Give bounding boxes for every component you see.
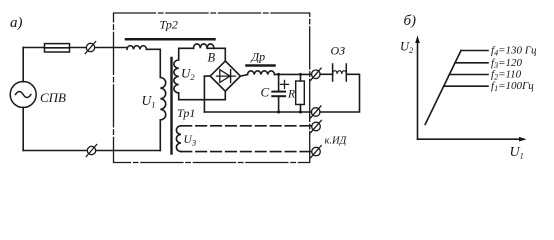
terminal X2 <box>87 146 95 154</box>
graph y axis <box>417 40 419 140</box>
wire Tr2 secondary to bridge top <box>207 48 225 61</box>
svg-text:f4=130 Гц: f4=130 Гц <box>491 45 537 58</box>
bridge rectifier B diamond <box>210 61 240 91</box>
transformer Tr2 core <box>126 38 215 41</box>
graph y axis arrowhead <box>415 36 420 44</box>
svg-text:U3: U3 <box>184 134 197 148</box>
wire bridge right vertex to choke <box>240 75 247 77</box>
svg-text:U1: U1 <box>510 145 524 161</box>
svg-text:Тр1: Тр1 <box>177 106 195 120</box>
wire bottom left horizontal <box>23 150 87 152</box>
wire U1 bottom <box>159 120 161 151</box>
capacitor C bottom lead <box>278 97 280 112</box>
terminal X3 slash <box>311 68 322 80</box>
terminal X5 slash <box>311 120 322 132</box>
wire left vertical top <box>22 48 24 82</box>
svg-text:а): а) <box>10 15 23 31</box>
graph flat line f4 <box>461 50 488 52</box>
transformer Tr1 core <box>170 58 172 154</box>
ac source sine symbol <box>16 92 31 98</box>
bridge diode triangle <box>220 70 230 83</box>
terminal X4 minus output <box>311 108 320 117</box>
svg-text:б): б) <box>404 13 417 29</box>
svg-text:U1: U1 <box>142 93 156 110</box>
svg-text:ОЗ: ОЗ <box>331 44 346 58</box>
transformer Tr1 winding U2 <box>174 60 179 93</box>
junction dot R top <box>299 73 302 76</box>
svg-text:С: С <box>261 85 270 100</box>
terminal X3 plus output <box>312 70 321 79</box>
graph flat line f1 <box>444 85 488 87</box>
terminal X5 <box>312 122 321 131</box>
svg-text:R: R <box>287 89 295 101</box>
terminal X6 slash <box>311 146 322 158</box>
choke Dr winding <box>248 71 275 75</box>
resistor R body <box>296 81 305 105</box>
ac source CPB circle <box>10 82 36 108</box>
terminal X6 <box>312 147 321 156</box>
coil OZ right bar <box>345 64 347 81</box>
terminal X1 <box>86 43 94 51</box>
graph x axis <box>418 138 523 140</box>
plus sign <box>281 80 289 88</box>
capacitor C top plate <box>272 91 285 93</box>
capacitor C bottom plate <box>272 95 285 97</box>
fuse center line <box>45 47 70 49</box>
svg-text:U2: U2 <box>400 40 414 56</box>
terminal X2 slash <box>86 145 96 157</box>
svg-text:U2: U2 <box>181 66 195 83</box>
svg-text:Др: Др <box>251 50 266 64</box>
svg-text:СПВ: СПВ <box>40 90 66 105</box>
resistor R bottom lead <box>300 105 302 113</box>
resistor R top lead <box>300 74 302 81</box>
wire top left horizontal <box>23 47 44 49</box>
bridge diode cathode bar <box>230 70 232 83</box>
wire left vertical bottom <box>22 108 24 151</box>
fuse F1 <box>45 44 70 52</box>
wire terminal X3 to coil OZ <box>320 73 333 75</box>
enclosure box dash-dot border <box>114 13 310 163</box>
svg-text:к.ИД: к.ИД <box>325 136 348 147</box>
dashed wire U3 top to terminal X5 <box>181 125 312 127</box>
wire terminal X1 to Tr2 primary <box>95 47 127 49</box>
dashed wire U3 bottom to terminal X6 <box>181 151 312 153</box>
wire Tr2 primary to U1 <box>147 49 161 77</box>
svg-text:Тр2: Тр2 <box>160 18 178 32</box>
wire coil OZ to right <box>320 74 360 112</box>
bridge diode axis <box>217 75 236 77</box>
wire bridge left vertex down to minus rail <box>204 76 210 112</box>
coil OZ left bar <box>332 64 334 81</box>
choke Dr core <box>247 64 275 67</box>
capacitor C top lead <box>278 74 280 90</box>
junction dot C top <box>277 73 280 76</box>
graph flat line f3 <box>455 62 488 64</box>
transformer Tr2 primary winding <box>127 46 147 50</box>
graph x axis arrowhead <box>519 137 527 142</box>
wire fuse to terminal <box>70 47 87 49</box>
graph slanted curve <box>425 51 461 125</box>
coil OZ winding <box>333 71 347 74</box>
svg-text:В: В <box>208 51 216 65</box>
svg-text:f1=100Гц: f1=100Гц <box>491 80 534 93</box>
transformer Tr2 secondary winding <box>194 44 214 48</box>
transformer Tr1 winding U1 <box>160 78 165 120</box>
terminal X4 slash <box>310 106 321 118</box>
plus rail top wire <box>275 73 312 75</box>
wire terminal X2 to U1 bottom <box>96 150 161 152</box>
minus rail bottom wire <box>204 111 311 113</box>
junction dot R bottom <box>299 111 302 114</box>
wire U2 bottom to bridge bottom <box>179 91 226 100</box>
junction dot C bottom <box>277 111 280 114</box>
wire U2 top to Tr2 secondary <box>179 48 194 60</box>
transformer Tr1 winding U3 <box>176 126 181 152</box>
graph flat line f2 <box>449 74 488 76</box>
terminal X1 slash <box>85 42 95 54</box>
